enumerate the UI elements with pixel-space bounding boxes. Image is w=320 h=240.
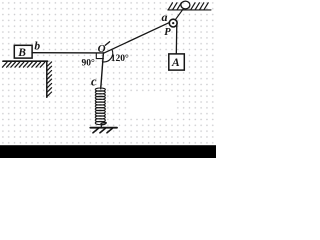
svg-text:a: a <box>162 10 168 24</box>
svg-text:120°: 120° <box>111 53 129 64</box>
svg-text:P: P <box>164 27 171 38</box>
svg-text:90°: 90° <box>82 58 96 69</box>
svg-text:A: A <box>171 57 180 69</box>
svg-text:b: b <box>34 40 40 52</box>
svg-text:c: c <box>91 74 97 88</box>
svg-text:B: B <box>17 47 26 59</box>
svg-text:O: O <box>98 43 106 55</box>
